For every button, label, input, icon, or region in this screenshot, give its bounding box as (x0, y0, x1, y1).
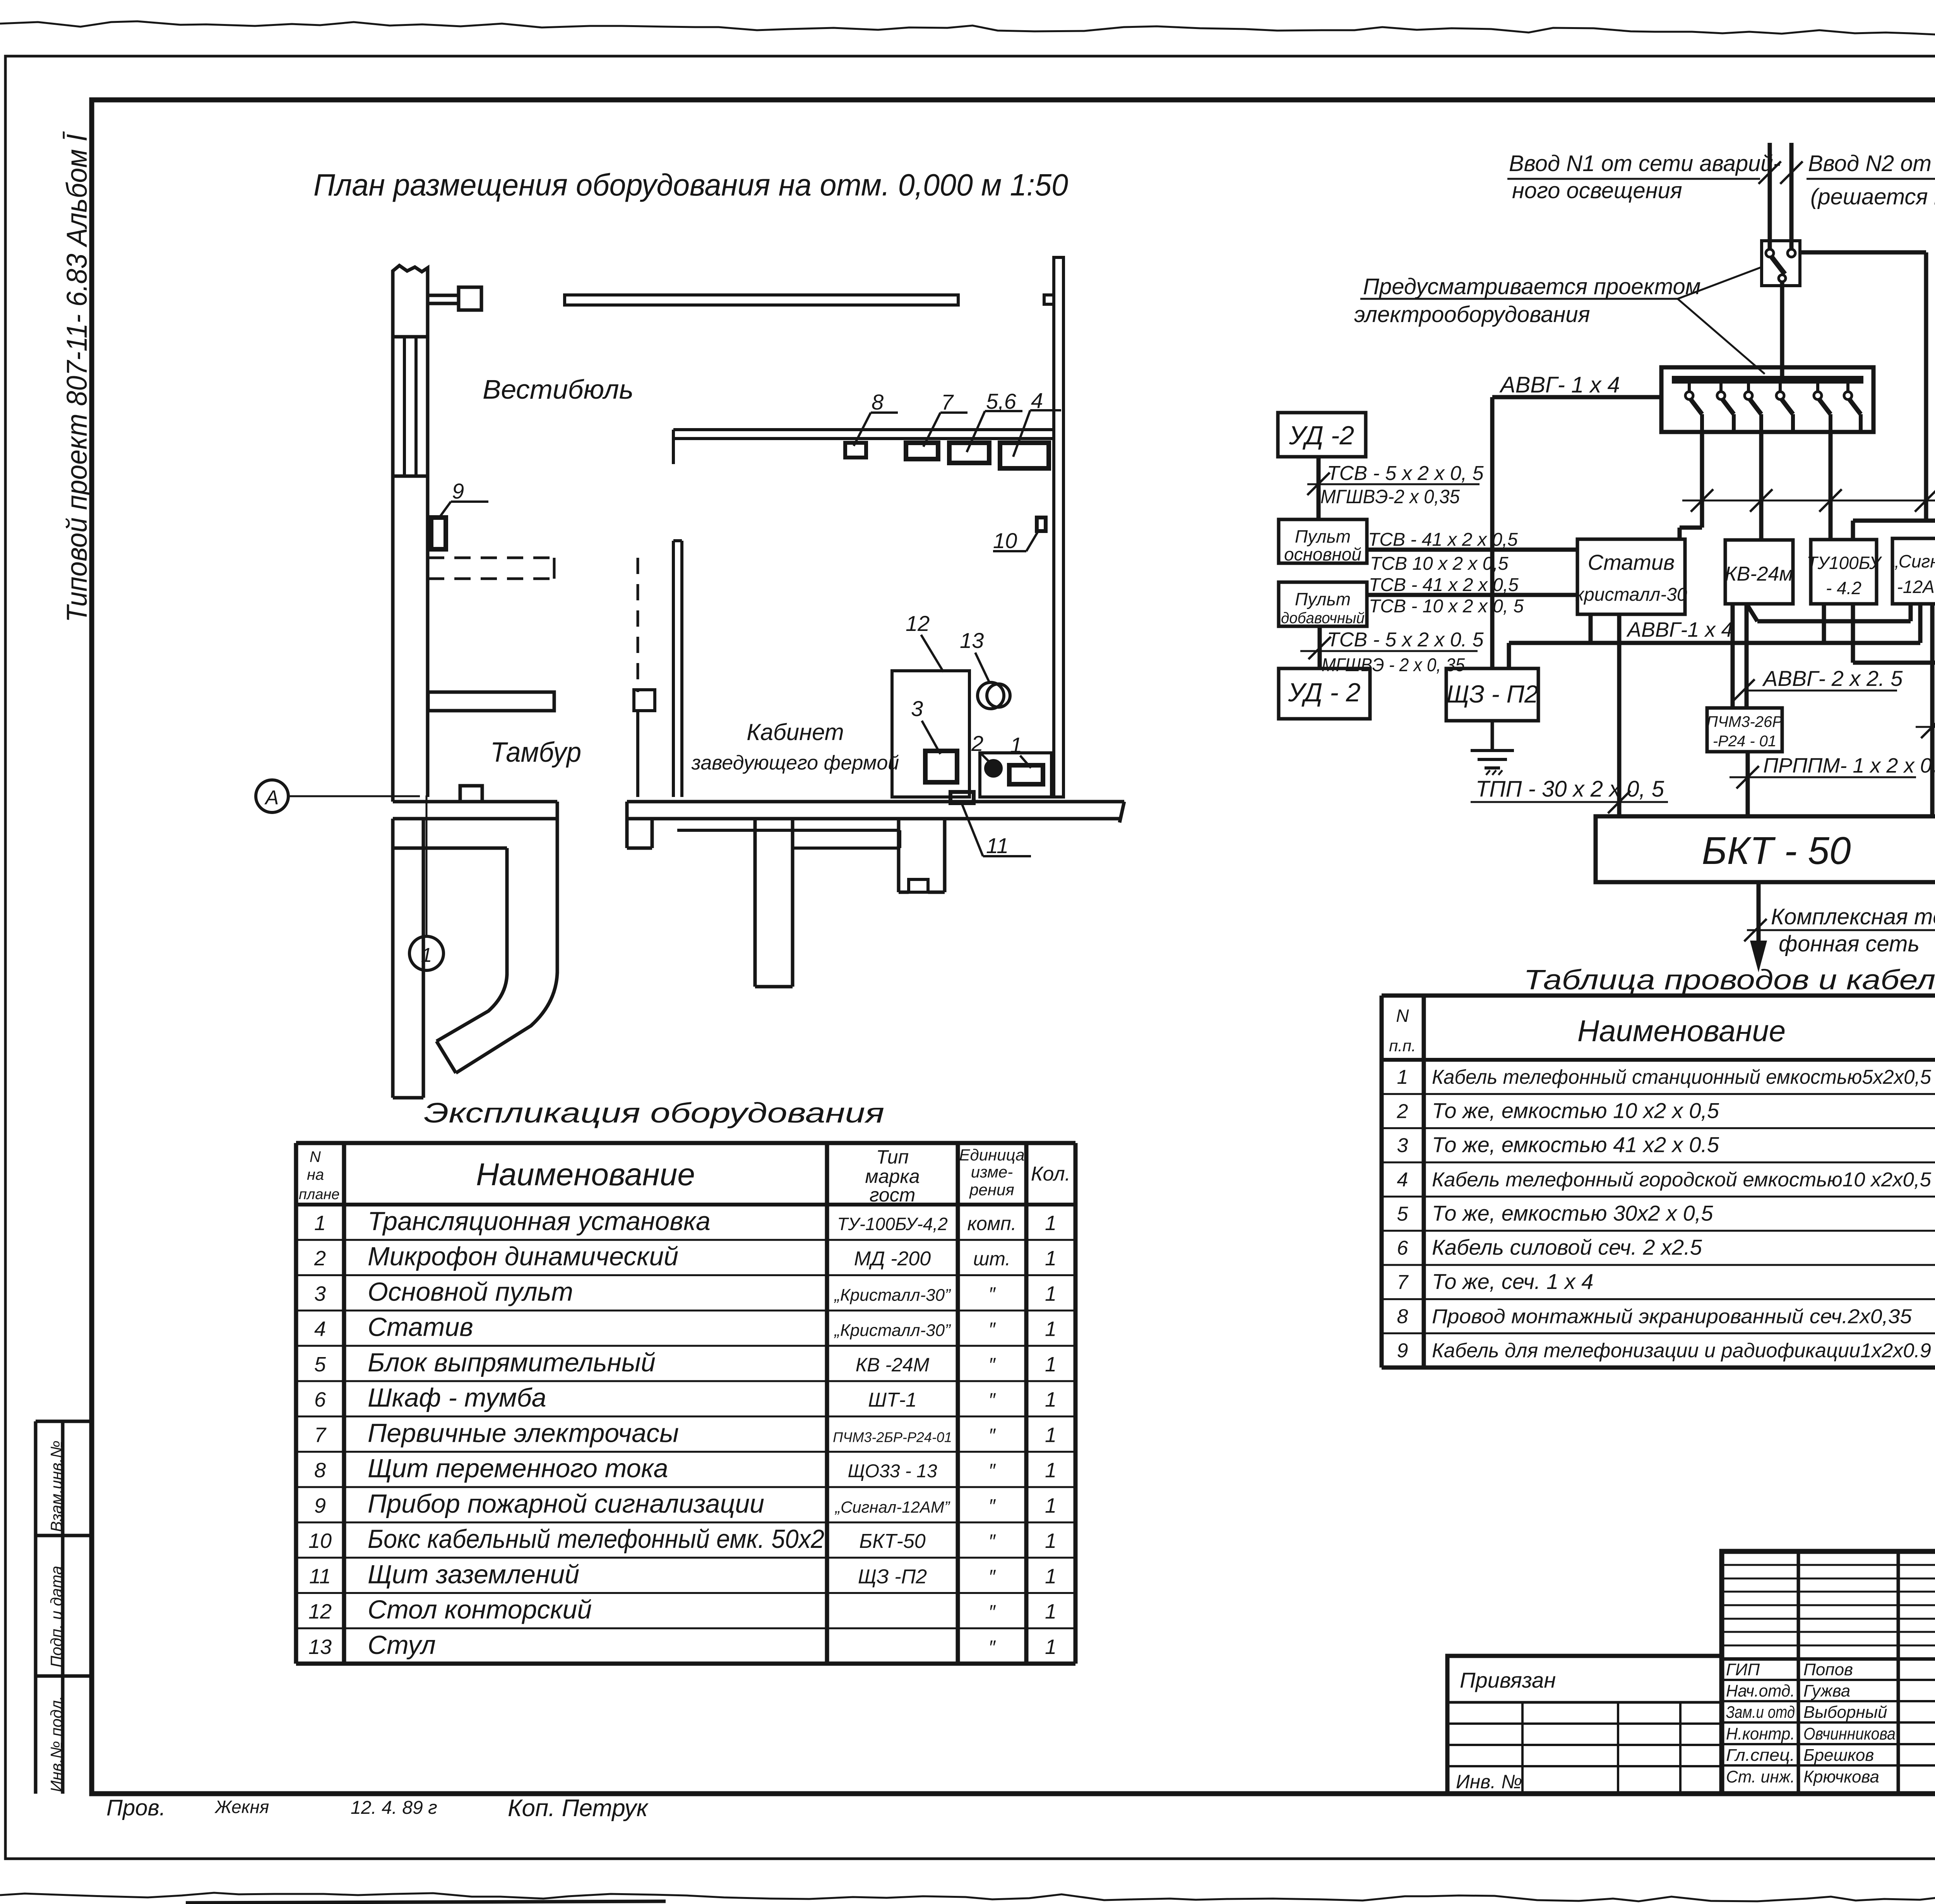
svg-text:Щит заземлений: Щит заземлений (368, 1560, 579, 1589)
changeover switch box (1762, 241, 1800, 286)
cables table grid (1380, 996, 1384, 1368)
svg-text:Ст. инж.: Ст. инж. (1726, 1767, 1795, 1786)
cable slash (1732, 679, 1755, 702)
svg-text:1: 1 (1045, 1459, 1057, 1482)
svg-text:- 4.2: - 4.2 (1826, 578, 1861, 598)
cable slash (1819, 489, 1842, 512)
wire ТУ100БУ to row C (1851, 604, 1855, 663)
wire row C to кр/т contact (1853, 661, 1935, 665)
svg-text:7: 7 (314, 1423, 327, 1446)
svg-text:ТСВ - 5 х 2 х 0, 5: ТСВ - 5 х 2 х 0, 5 (1327, 462, 1484, 485)
wire КВ-24М to ПЧМ3 left (1731, 604, 1735, 708)
svg-text:Подп. и дата: Подп. и дата (47, 1566, 65, 1667)
svg-text:9: 9 (452, 479, 464, 503)
svg-text:ЩЗ -П2: ЩЗ -П2 (858, 1565, 927, 1588)
svg-text:Н.контр.: Н.контр. (1726, 1724, 1795, 1743)
svg-text:Провод монтажный экранированны: Провод монтажный экранированный сеч.2х0,… (1432, 1305, 1912, 1328)
svg-text:1: 1 (1045, 1318, 1057, 1341)
wire Статив to row B (1589, 614, 1593, 643)
svg-text:-12АМ”: -12АМ” (1897, 577, 1935, 597)
svg-text:13: 13 (960, 628, 984, 653)
steps below wall (677, 829, 900, 832)
box УД-2 bottom (1279, 668, 1370, 719)
title block thin rows (1722, 1564, 1935, 1566)
wire АВВГ-1х4 riser to ЩЗ-П2 (1490, 397, 1495, 668)
svg-text:АВВГ-1 х 4: АВВГ-1 х 4 (1626, 618, 1733, 641)
svg-text:6: 6 (314, 1388, 326, 1411)
svg-text:изме-: изме- (971, 1163, 1013, 1181)
stamp text Инв.№ подл. (47, 1696, 65, 1792)
svg-text:МД -200: МД -200 (854, 1248, 931, 1270)
svg-text:п.п.: п.п. (1389, 1037, 1416, 1055)
svg-text:на: на (307, 1166, 324, 1183)
svg-text:Выборный: Выборный (1803, 1703, 1887, 1722)
panel switch 1 (1688, 384, 1691, 392)
svg-text:электрооборудования: электрооборудования (1354, 302, 1590, 327)
device 7 box (906, 443, 938, 459)
wall cap (393, 335, 428, 339)
wire panel to Статив (1700, 432, 1704, 528)
svg-text:БКТ-50: БКТ-50 (859, 1530, 925, 1553)
svg-text:1: 1 (1045, 1423, 1057, 1446)
svg-text:13: 13 (308, 1635, 332, 1659)
wire row A КВ-24М to Сигнал (1747, 604, 1757, 621)
box БКТ-50 (1596, 816, 1935, 882)
cable slash (1691, 489, 1713, 512)
cable slash (1921, 716, 1935, 738)
torn paper top edge (0, 21, 1935, 46)
bottom wall left (tambour) (393, 800, 557, 804)
panel switch 6 (1846, 384, 1849, 392)
svg-text:5: 5 (1397, 1203, 1409, 1225)
vestibule shelf wall (673, 428, 1054, 431)
project designation vertical text (61, 131, 93, 622)
svg-text:-Р24 - 01: -Р24 - 01 (1713, 733, 1777, 750)
svg-text:Брешков: Брешков (1803, 1746, 1874, 1765)
svg-text:7: 7 (1397, 1271, 1409, 1294)
svg-text:8: 8 (872, 390, 884, 414)
svg-text:рения: рения (969, 1181, 1014, 1199)
cable slash (1915, 489, 1935, 512)
device 10 box (1037, 518, 1046, 531)
svg-text:2: 2 (971, 731, 983, 756)
svg-text:Первичные электрочасы: Первичные электрочасы (368, 1418, 679, 1448)
svg-text:ПРППМ- 1 х 2 х 0. 9: ПРППМ- 1 х 2 х 0. 9 (1763, 754, 1935, 777)
switch contact (1766, 249, 1774, 257)
stamp text Взам.инв.№ (47, 1441, 65, 1532)
column H below wall (897, 819, 901, 892)
svg-text:Гужва: Гужва (1803, 1681, 1850, 1700)
small box on wall (460, 786, 482, 802)
cable slash (1307, 473, 1330, 495)
svg-text:1: 1 (1045, 1529, 1057, 1553)
title block name rows (1722, 1679, 1935, 1681)
svg-text:10: 10 (993, 528, 1017, 553)
cable slash (1736, 766, 1759, 788)
svg-text:„Сигнал-12АМ”: „Сигнал-12АМ” (834, 1498, 950, 1516)
left wall lower continuation (391, 819, 395, 1098)
svg-text:ТПП - 30 х 2 х 0, 5: ТПП - 30 х 2 х 0, 5 (1476, 776, 1664, 802)
switch contact (1779, 275, 1786, 282)
svg-text:Взам.инв.№: Взам.инв.№ (47, 1441, 65, 1532)
earthing board 11 (950, 792, 974, 803)
cable slash (1750, 489, 1772, 512)
bottom wall right (office) (627, 800, 1124, 804)
svg-text:8: 8 (314, 1459, 326, 1482)
svg-text:План размещения оборудования: План размещения оборудования на отм. 0,0… (313, 168, 1068, 202)
svg-text:То же, емкостью 30х2 х 0,5: То же, емкостью 30х2 х 0,5 (1432, 1201, 1713, 1225)
svg-text:9: 9 (1397, 1340, 1408, 1362)
svg-text:Экспликация оборудования: Экспликация оборудования (424, 1098, 884, 1129)
svg-text:Зам.и отд: Зам.и отд (1726, 1703, 1795, 1722)
svg-text:6: 6 (1397, 1237, 1408, 1260)
wall segment (636, 711, 639, 797)
wire пульт добавочный to Статив (1367, 593, 1577, 597)
cable slash (1608, 791, 1630, 813)
transformer line (1853, 519, 1935, 523)
svg-text:Кол.: Кол. (1031, 1163, 1070, 1185)
wall notch (1044, 295, 1054, 304)
device 1 (1009, 765, 1043, 784)
svg-text:Комплексная теле-: Комплексная теле- (1771, 904, 1935, 929)
corridor walls curved (556, 819, 559, 973)
svg-text:9: 9 (314, 1494, 326, 1517)
svg-text:Предусматривается проектом: Предусматривается проектом (1363, 274, 1701, 299)
svg-text:КВ-24м: КВ-24м (1725, 563, 1793, 585)
svg-text:ЩО33 - 13: ЩО33 - 13 (848, 1461, 937, 1482)
svg-text:Таблица проводов и кабелей: Таблица проводов и кабелей (1524, 965, 1935, 996)
svg-text:Наименование: Наименование (476, 1157, 695, 1192)
svg-text:Крючкова: Крючкова (1803, 1767, 1879, 1786)
title block verticals (1797, 1551, 1800, 1794)
torn paper bottom edge (0, 1893, 1935, 1902)
svg-text:11: 11 (309, 1565, 331, 1588)
svg-text:АВВГ- 1 х 4: АВВГ- 1 х 4 (1499, 372, 1620, 398)
devices 5,6 box (949, 443, 989, 463)
svg-text:ЩЗ - П2: ЩЗ - П2 (1446, 680, 1538, 708)
svg-text:″: ″ (988, 1424, 996, 1446)
svg-text:″: ″ (988, 1319, 996, 1340)
svg-text:МГШВЭ - 2 х 0, 35: МГШВЭ - 2 х 0, 35 (1322, 655, 1465, 675)
svg-text:ТСВ - 10 х 2 х 0, 5: ТСВ - 10 х 2 х 0, 5 (1369, 596, 1524, 617)
wire пульт добавочный to УД-2 (1318, 626, 1322, 668)
svg-text:10: 10 (308, 1529, 332, 1553)
svg-text:ТСВ - 41 х 2 х 0,5: ТСВ - 41 х 2 х 0,5 (1369, 575, 1519, 595)
svg-text:1: 1 (1045, 1635, 1057, 1659)
wire ТУ100БУ to row B (1822, 604, 1826, 643)
svg-text:Шкаф - тумба: Шкаф - тумба (368, 1383, 546, 1412)
svg-text:Бокс кабельный телефонный емк.: Бокс кабельный телефонный емк. 50х2 (368, 1524, 824, 1554)
corridor end cap (437, 1041, 456, 1073)
svg-text:Кабель телефонный городской е: Кабель телефонный городской емкостью10 х… (1432, 1169, 1932, 1191)
svg-text:Пульт: Пульт (1295, 526, 1351, 547)
dashed opening (428, 557, 554, 559)
box Статив кристалл-30 (1577, 539, 1685, 614)
svg-text:Кабель для телефонизации и рад: Кабель для телефонизации и радиофикации1… (1432, 1340, 1931, 1362)
switch blade (1772, 257, 1785, 274)
svg-text:ТСВ 10 х 2 х 0,5: ТСВ 10 х 2 х 0,5 (1370, 554, 1509, 574)
microphone 2 (filled) (986, 761, 1001, 776)
wall protrusion top left (428, 294, 460, 297)
device 8 box (845, 443, 866, 458)
svg-text:1: 1 (421, 944, 432, 967)
svg-text:основной: основной (1284, 544, 1361, 564)
svg-text:УД -2: УД -2 (1289, 421, 1354, 450)
svg-text:Трансляционная установка: Трансляционная установка (368, 1206, 711, 1236)
telephone network arrow (1757, 882, 1761, 959)
svg-text:1: 1 (1045, 1247, 1057, 1270)
svg-text:Ввод N2 от ТП или соседнего зд: Ввод N2 от ТП или соседнего здания (1808, 151, 1935, 176)
svg-text:То же, емкостью 41 х2 х 0.5: То же, емкостью 41 х2 х 0.5 (1432, 1133, 1719, 1157)
svg-text:1: 1 (1045, 1600, 1057, 1623)
svg-text:ТСВ - 41 х 2 х 0,5: ТСВ - 41 х 2 х 0,5 (1368, 530, 1518, 550)
svg-text:Привязан: Привязан (1460, 1668, 1556, 1692)
wire КВ-24М to ПЧМ3 right (1745, 604, 1749, 708)
svg-text:5: 5 (314, 1353, 326, 1376)
switch contact (1788, 249, 1795, 257)
svg-text:4: 4 (1397, 1169, 1408, 1191)
svg-text:ТСВ - 5 х 2 х 0. 5: ТСВ - 5 х 2 х 0. 5 (1327, 629, 1484, 651)
привязан block (1447, 1656, 1722, 1794)
svg-text:ГИП: ГИП (1726, 1660, 1760, 1679)
svg-text:″: ″ (988, 1389, 996, 1411)
svg-text:Блок выпрямительный: Блок выпрямительный (368, 1348, 656, 1377)
cable slash (1780, 161, 1803, 184)
column box top left (459, 287, 481, 310)
svg-text:″: ″ (988, 1495, 996, 1517)
svg-text:Единица: Единица (959, 1146, 1025, 1164)
svg-text:шт.: шт. (973, 1248, 1010, 1270)
svg-text:″: ″ (988, 1530, 996, 1552)
wire Статив to БКТ-50 (1617, 614, 1622, 816)
svg-text:4: 4 (1031, 388, 1043, 413)
svg-text:ШТ-1: ШТ-1 (868, 1389, 917, 1411)
svg-text:АВВГ- 2 х 2. 5: АВВГ- 2 х 2. 5 (1762, 666, 1903, 691)
svg-text:Основной пульт: Основной пульт (368, 1277, 573, 1306)
svg-text:Наименование: Наименование (1577, 1014, 1786, 1048)
svg-text:Тип: Тип (876, 1146, 909, 1168)
svg-text:То же, сеч. 1 х 4: То же, сеч. 1 х 4 (1432, 1269, 1593, 1294)
wall left column with broken top (393, 266, 428, 802)
office left wall (672, 541, 675, 797)
svg-text:комп.: комп. (967, 1213, 1016, 1234)
svg-text:„Сигнал: „Сигнал (1892, 551, 1935, 571)
svg-text:Коп. Петрук: Коп. Петрук (508, 1795, 649, 1822)
box Пульт основной (1279, 519, 1367, 563)
top long wall (565, 295, 958, 305)
svg-text:КВ -24М: КВ -24М (856, 1354, 930, 1376)
svg-text:4: 4 (314, 1318, 326, 1341)
svg-text:Инв. №: Инв. № (1456, 1771, 1522, 1793)
wall lower edge (393, 847, 507, 850)
device 4 box (1000, 443, 1049, 468)
cable slash (1759, 161, 1781, 184)
svg-text:″: ″ (988, 1354, 996, 1376)
svg-text:А: А (264, 787, 279, 809)
box ПЧМ3-26Р-Р24-01 (1707, 708, 1782, 752)
svg-text:Прибор пожарной сигнализации: Прибор пожарной сигнализации (368, 1489, 764, 1518)
svg-text:12. 4. 89 г: 12. 4. 89 г (351, 1798, 437, 1818)
chair 13 (978, 682, 1004, 709)
svg-text:″: ″ (988, 1283, 996, 1305)
svg-text:Пульт: Пульт (1295, 589, 1351, 609)
wire switch to busbar (1780, 282, 1784, 376)
wire УД-2 to пульт основной (1317, 457, 1321, 519)
label line АВВГ-2х2,5 top (1682, 500, 1935, 502)
wire АВВГ-1х4 horizontal (1492, 395, 1661, 399)
wire ввод N1 (1768, 143, 1772, 249)
svg-text:Тамбур: Тамбур (490, 737, 581, 768)
cable slash (1308, 637, 1331, 659)
scan artifact line bottom (186, 1901, 666, 1903)
svg-text:фонная сеть: фонная сеть (1779, 931, 1920, 956)
svg-text:гост: гост (870, 1184, 916, 1206)
svg-text:добавочный: добавочный (1281, 610, 1365, 627)
box Пульт добавочный (1279, 582, 1367, 626)
svg-text:Статив: Статив (368, 1313, 473, 1342)
stand plate 1-2 (980, 753, 1051, 797)
svg-text:ТУ100БУ: ТУ100БУ (1807, 553, 1882, 573)
svg-text:заведующего фермой: заведующего фермой (691, 752, 899, 774)
distribution panel (1661, 367, 1873, 432)
desk 12 (892, 671, 969, 797)
svg-text:Гл.спец.: Гл.спец. (1726, 1746, 1795, 1765)
svg-text:N: N (310, 1148, 321, 1165)
svg-text:(решается при привязке проек: (решается при привязке проекта) (1810, 184, 1935, 209)
svg-text:То же, емкостью 10 х2 х 0,5: То же, емкостью 10 х2 х 0,5 (1432, 1098, 1719, 1123)
svg-text:„Кристалл-30”: „Кристалл-30” (834, 1321, 951, 1340)
grid mark 1 (409, 936, 444, 970)
explication table grid (294, 1143, 298, 1664)
svg-text:1: 1 (1045, 1388, 1057, 1411)
svg-text:Микрофон динамический: Микрофон динамический (368, 1242, 678, 1271)
window in left wall (393, 475, 428, 478)
svg-text:1: 1 (1045, 1353, 1057, 1376)
panel switch 4 (1779, 384, 1782, 392)
svg-text:Кабинет: Кабинет (747, 719, 844, 745)
svg-text:3: 3 (1397, 1135, 1408, 1157)
svg-text:ПЧМ3-2БР-Р24-01: ПЧМ3-2БР-Р24-01 (833, 1429, 952, 1445)
svg-text:3: 3 (314, 1282, 326, 1305)
console 3 (925, 751, 957, 782)
grid mark A (256, 780, 288, 812)
svg-text:МГШВЭ-2 х 0,35: МГШВЭ-2 х 0,35 (1320, 486, 1460, 507)
panel switch 2 (1719, 384, 1723, 392)
wire switch to transformer riser (1800, 250, 1926, 255)
svg-text:Стул: Стул (368, 1630, 436, 1660)
svg-text:Жекня: Жекня (214, 1797, 269, 1817)
box КВ-24М (1725, 540, 1793, 604)
wire ПЧМ3 to БКТ-50 (1746, 752, 1750, 816)
svg-text:1: 1 (1397, 1066, 1408, 1088)
svg-text:ПЧМ3-26Р: ПЧМ3-26Р (1707, 713, 1783, 730)
svg-text:2: 2 (314, 1247, 326, 1270)
title block outer (1722, 1551, 1935, 1794)
box Сигнал-12АМ (1892, 538, 1935, 604)
svg-text:7: 7 (941, 390, 954, 414)
svg-text:Ввод N1 от сети аварий-: Ввод N1 от сети аварий- (1509, 151, 1781, 176)
svg-text:Щит переменного тока: Щит переменного тока (368, 1454, 668, 1483)
svg-text:″: ″ (988, 1601, 996, 1623)
svg-text:Кабель телефонный станционный: Кабель телефонный станционный емкостью5х… (1432, 1066, 1932, 1088)
svg-text:8: 8 (1397, 1305, 1408, 1328)
svg-text:ТУ-100БУ-4,2: ТУ-100БУ-4,2 (837, 1214, 948, 1234)
svg-text:Инв.№ подл.: Инв.№ подл. (47, 1696, 65, 1792)
svg-text:1: 1 (314, 1212, 326, 1235)
busbar (1672, 376, 1863, 384)
svg-text:3: 3 (911, 696, 923, 721)
wire panel to КВ-24М (1759, 432, 1764, 540)
box УД-2 top (1278, 413, 1366, 457)
column T below wall (753, 819, 757, 987)
leader to switch (1678, 267, 1762, 299)
svg-text:ного освещения: ного освещения (1512, 178, 1682, 203)
svg-text:″: ″ (988, 1637, 996, 1658)
svg-text:5,6: 5,6 (986, 389, 1017, 413)
wall jagged end (1120, 802, 1124, 823)
svg-text:плане: плане (299, 1186, 340, 1203)
svg-text:1: 1 (1010, 733, 1022, 757)
svg-text:1: 1 (1045, 1282, 1057, 1305)
svg-text:Типовой проект 807-11- 6.83: Типовой проект 807-11- 6.83 Альбом Ī (61, 131, 93, 622)
leader to panel (1678, 299, 1765, 374)
wall stub (634, 690, 655, 711)
svg-text:Кабель силовой сеч. 2 х2.5: Кабель силовой сеч. 2 х2.5 (1432, 1235, 1702, 1260)
svg-text:БКТ - 50: БКТ - 50 (1702, 829, 1851, 872)
svg-text:N: N (1396, 1006, 1409, 1026)
svg-text:„Кристалл-30”: „Кристалл-30” (834, 1285, 951, 1304)
svg-text:Нач.отд.: Нач.отд. (1726, 1681, 1795, 1700)
svg-text:1: 1 (1045, 1565, 1057, 1588)
box ТУ100БУ-4.2 (1811, 540, 1877, 604)
svg-text:2: 2 (1397, 1100, 1408, 1123)
panel switch 5 (1816, 384, 1819, 392)
svg-text:Овчинникова: Овчинникова (1803, 1724, 1896, 1743)
wire ТУ100БУ to transformer line (1851, 521, 1855, 540)
right tall wall (1054, 257, 1063, 797)
svg-text:УД - 2: УД - 2 (1288, 678, 1360, 707)
wire ввод N2 (1789, 143, 1794, 249)
cable slash (1744, 919, 1767, 941)
svg-text:12: 12 (308, 1600, 332, 1623)
svg-text:Попов: Попов (1803, 1660, 1853, 1679)
svg-text:11: 11 (986, 833, 1009, 858)
partition bar (428, 692, 554, 711)
panel switch 3 (1747, 384, 1750, 392)
svg-text:1: 1 (1045, 1494, 1057, 1517)
wire пульт основной to Статив (1367, 548, 1577, 552)
device 9 box (431, 518, 446, 549)
svg-text:12: 12 (906, 611, 930, 636)
svg-text:1: 1 (1045, 1212, 1057, 1235)
svg-text:Пров.: Пров. (106, 1795, 166, 1820)
stamp text Подп. и дата (47, 1566, 65, 1667)
svg-text:Стол конторский: Стол конторский (368, 1595, 592, 1625)
svg-text:″: ″ (988, 1460, 996, 1482)
svg-text:Вестибюль: Вестибюль (483, 374, 634, 404)
wire row B АВВГ-1х4 (1509, 641, 1920, 645)
svg-text:″: ″ (988, 1566, 996, 1587)
wire Сигнал to БКТ-50 (1930, 604, 1935, 816)
dashed interior line (637, 558, 639, 692)
ground symbol (1491, 721, 1494, 751)
svg-text:кристалл-30: кристалл-30 (1575, 584, 1687, 605)
wire panel to ТУ100БУ (1829, 432, 1833, 540)
box ЩЗ-П2 (1446, 668, 1538, 721)
left stamp cells (36, 1420, 92, 1423)
svg-text:Статив: Статив (1588, 550, 1675, 574)
